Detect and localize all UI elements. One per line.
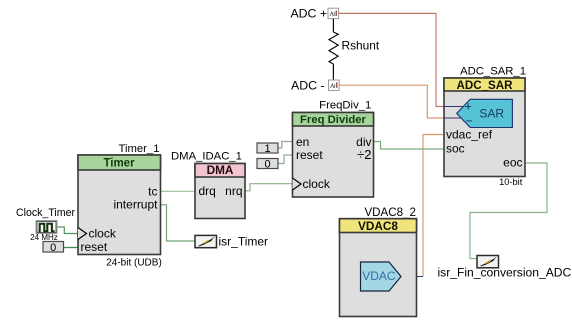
constant 0 (Timer reset) (43, 242, 64, 254)
svg-text:ADC_SAR_1: ADC_SAR_1 (460, 66, 526, 78)
wire ADC eoc to isr_Fin_conversion_ADC (470, 163, 547, 259)
constant 0 (FreqDiv reset) (257, 159, 278, 171)
svg-text:24 MHz: 24 MHz (30, 233, 58, 242)
resistor Rshunt (329, 19, 380, 80)
svg-text:vdac_ref: vdac_ref (446, 127, 493, 141)
terminal ADC+ (290, 7, 338, 21)
wire DMA nrq to FreqDiv clock (245, 184, 293, 191)
svg-text:reset: reset (81, 240, 108, 254)
clock Clock_Timer (16, 207, 76, 242)
svg-text:+: + (465, 100, 472, 114)
svg-text:interrupt: interrupt (113, 198, 158, 212)
svg-text:isr_Fin_conversion_ADC: isr_Fin_conversion_ADC (438, 265, 572, 279)
svg-text:soc: soc (446, 141, 465, 155)
wire ADC- to SAR minus input (339, 85, 444, 118)
svg-text:ADC +: ADC + (290, 7, 327, 21)
svg-text:clock: clock (303, 177, 331, 191)
svg-text:0: 0 (264, 159, 270, 171)
svg-text:10-bit: 10-bit (499, 177, 523, 187)
svg-text:DMA: DMA (207, 163, 234, 177)
svg-text:tc: tc (148, 185, 157, 199)
svg-text:1: 1 (264, 143, 270, 155)
svg-text:Timer: Timer (103, 158, 135, 170)
svg-text:VDAC8: VDAC8 (358, 219, 398, 233)
svg-text:0: 0 (50, 242, 56, 254)
svg-text:Freq Divider: Freq Divider (300, 114, 367, 126)
svg-text:VDAC8_2: VDAC8_2 (364, 206, 416, 219)
svg-text:24-bit (UDB): 24-bit (UDB) (106, 258, 162, 269)
svg-text:÷2: ÷2 (357, 147, 371, 162)
wire Clock_Timer to Timer clock (57, 227, 78, 234)
wire Timer interrupt to isr_Timer (161, 205, 196, 241)
svg-text:nrq: nrq (225, 184, 242, 198)
wire constant 0 to Timer reset (64, 247, 79, 249)
vdac VDAC8_2 (340, 206, 417, 317)
dma DMA_IDAC_1 (171, 151, 245, 219)
adc ADC_SAR_1 (444, 66, 526, 187)
svg-text:clock: clock (89, 226, 117, 240)
wire FreqDiv div to ADC soc (374, 142, 445, 150)
svg-text:eoc: eoc (503, 156, 522, 170)
svg-text:drq: drq (199, 184, 216, 198)
isr isr_Fin_conversion_ADC (438, 256, 572, 280)
svg-text:ADC -: ADC - (291, 79, 324, 93)
wire Timer tc to DMA drq (161, 190, 196, 192)
svg-text:VDAC: VDAC (362, 269, 396, 283)
svg-text:DMA_IDAC_1: DMA_IDAC_1 (171, 151, 242, 163)
svg-text:Clock_Timer: Clock_Timer (16, 207, 76, 219)
svg-text:Timer_1: Timer_1 (118, 143, 159, 155)
wire ADC+ to SAR plus input (339, 13, 444, 106)
wire constant 0 to FreqDiv reset (278, 155, 293, 164)
svg-text:Rshunt: Rshunt (342, 39, 380, 53)
svg-text:reset: reset (296, 148, 323, 162)
divider FreqDiv_1 (293, 100, 374, 198)
svg-text:−: − (466, 114, 473, 128)
constant 1 (FreqDiv en) (257, 143, 278, 155)
timer Timer_1 (78, 143, 162, 269)
svg-text:en: en (296, 135, 309, 149)
wire constant 1 to FreqDiv en (278, 142, 293, 149)
terminal ADC- (291, 79, 339, 93)
svg-text:FreqDiv_1: FreqDiv_1 (319, 100, 371, 112)
svg-text:ADC_SAR: ADC_SAR (456, 79, 513, 92)
svg-text:SAR: SAR (479, 107, 504, 121)
wire VDAC8 out to ADC vdac_ref (423, 135, 444, 277)
svg-text:isr_Timer: isr_Timer (219, 234, 269, 248)
isr isr_Timer (195, 234, 268, 248)
